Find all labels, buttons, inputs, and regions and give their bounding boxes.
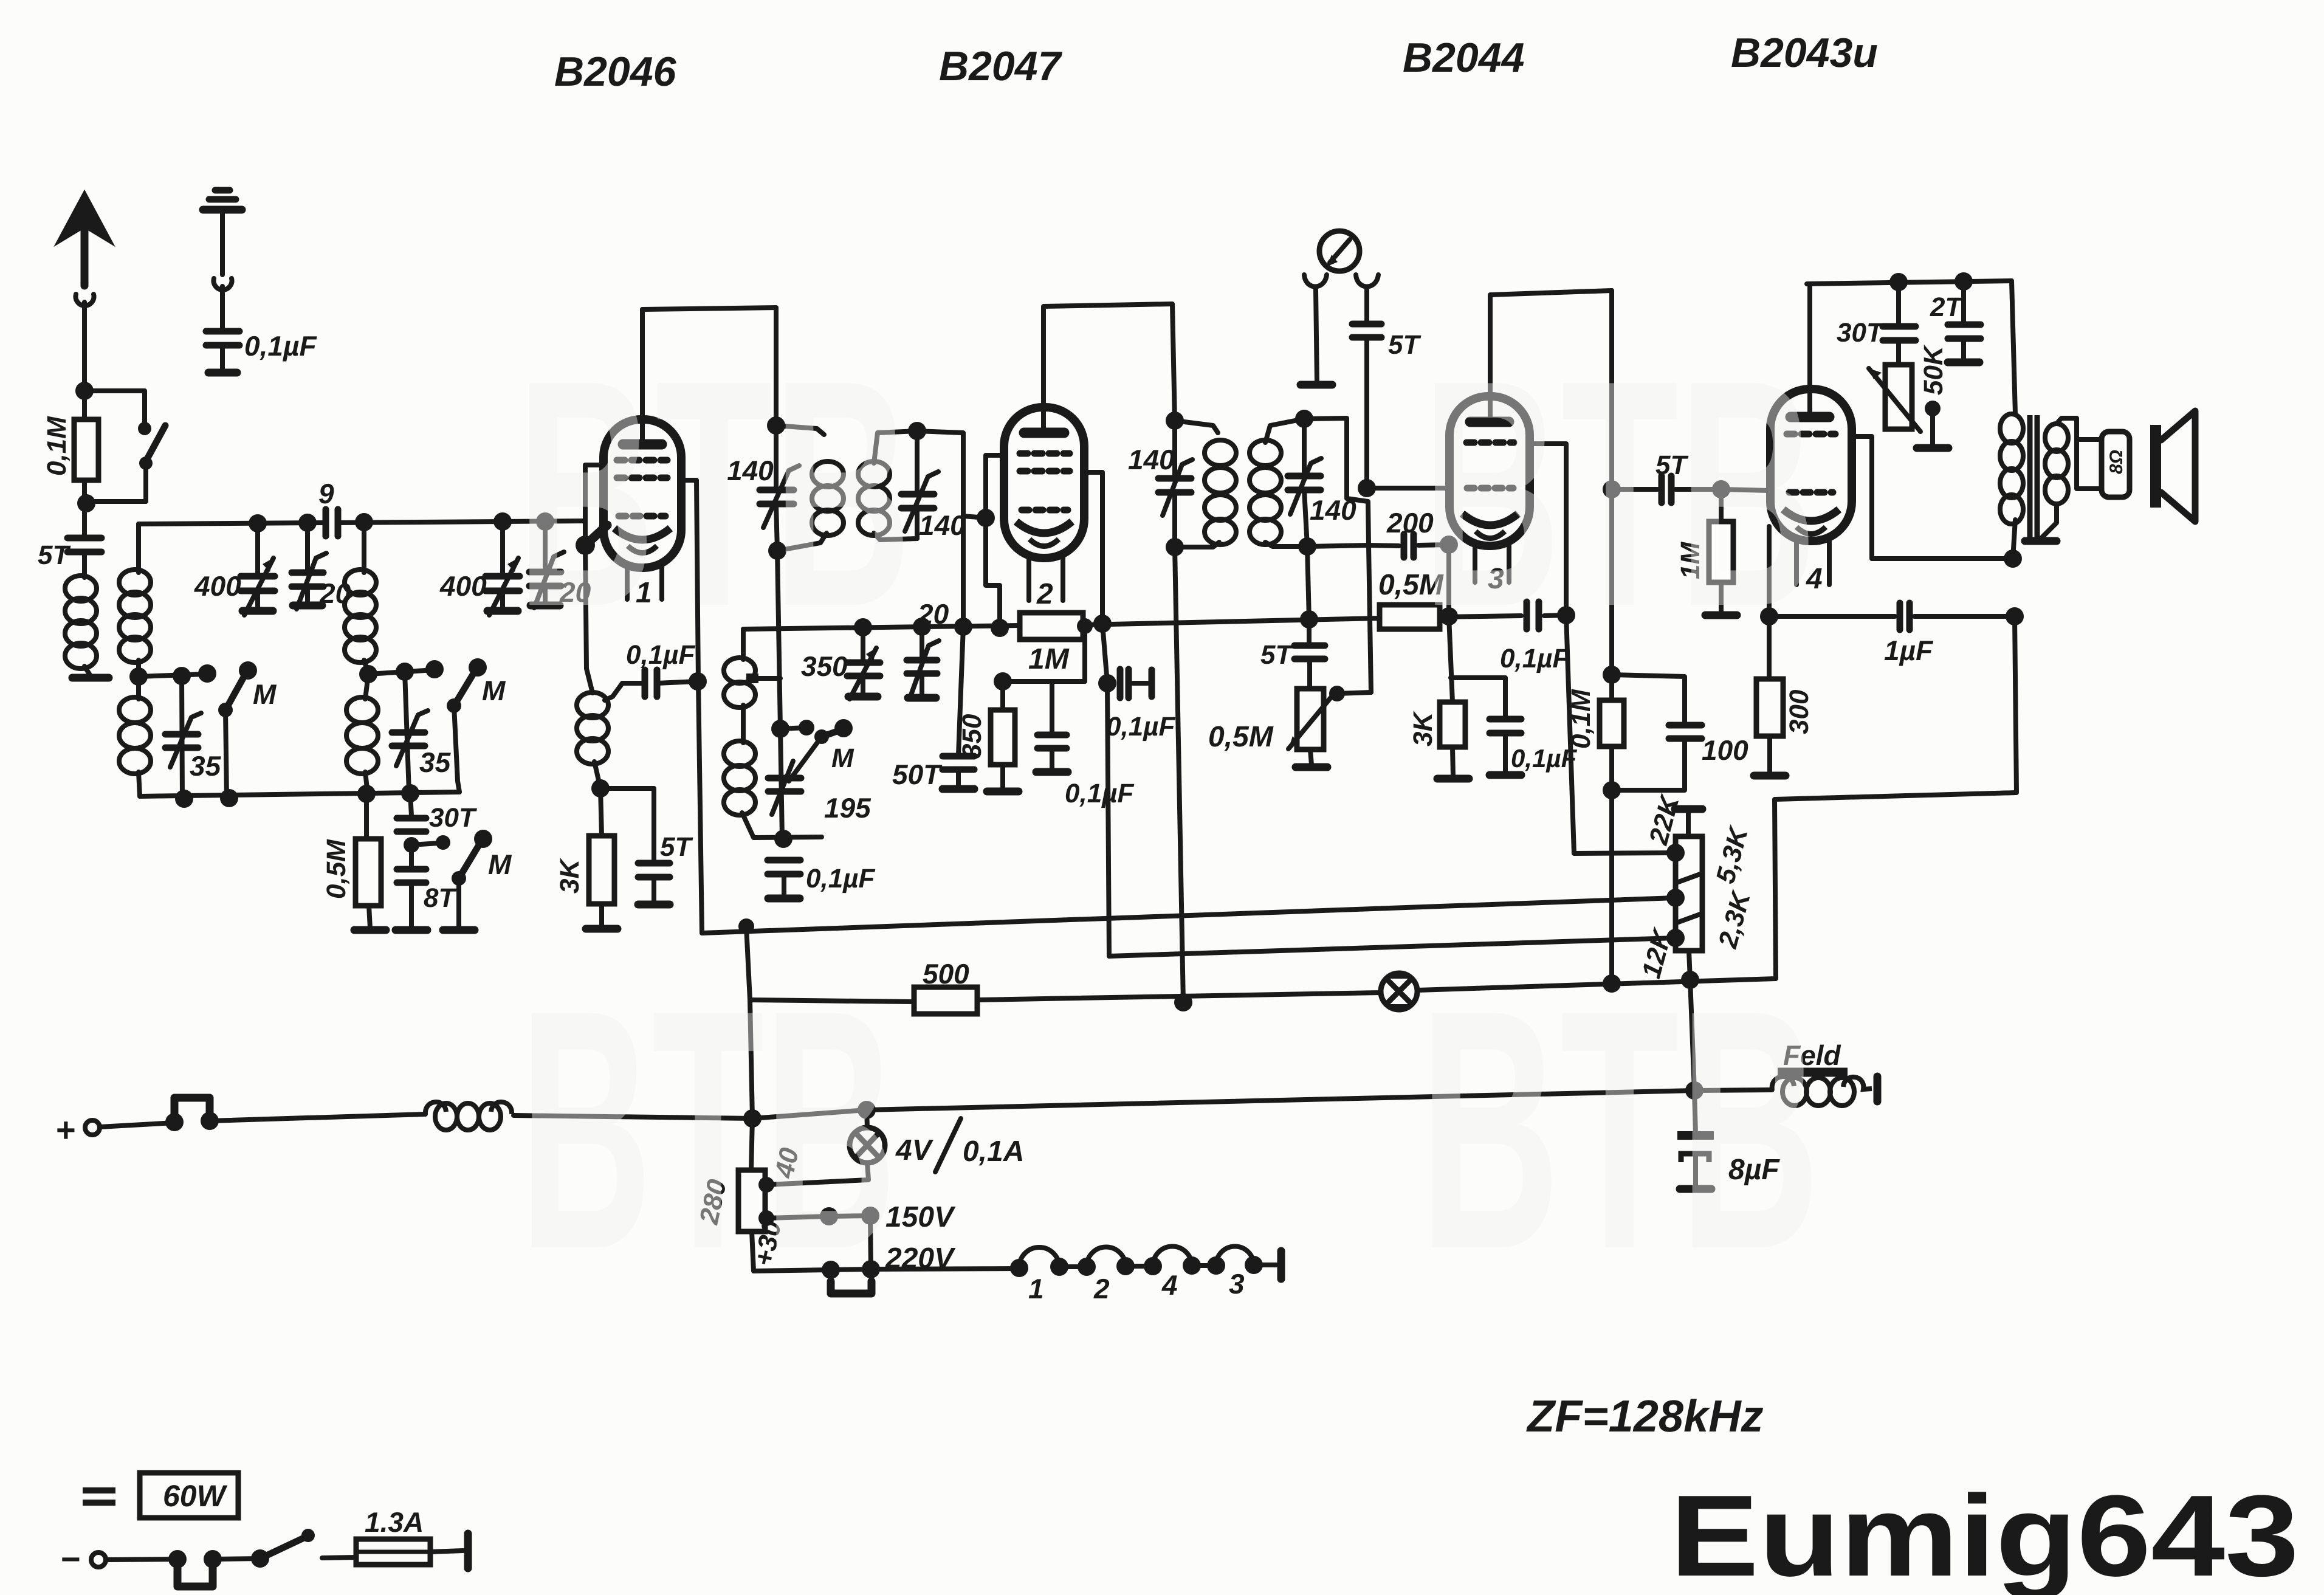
svg-text:140: 140 xyxy=(1128,444,1175,475)
svg-text:50K: 50K xyxy=(1919,344,1948,395)
svg-text:1: 1 xyxy=(1028,1273,1044,1304)
svg-text:M: M xyxy=(253,678,277,710)
svg-text:4: 4 xyxy=(1161,1269,1178,1301)
svg-text:140: 140 xyxy=(919,509,966,541)
svg-text:30T: 30T xyxy=(429,803,477,833)
svg-text:1M: 1M xyxy=(1028,643,1070,675)
svg-text:B2044: B2044 xyxy=(1403,35,1524,81)
svg-text:0,1µF: 0,1µF xyxy=(806,864,876,894)
svg-text:ZF=128kHz: ZF=128kHz xyxy=(1526,1391,1764,1441)
svg-text:BTB: BTB xyxy=(1422,314,1817,673)
svg-text:0,5M: 0,5M xyxy=(321,839,351,899)
svg-text:0,1M: 0,1M xyxy=(42,416,72,476)
svg-text:BTB: BTB xyxy=(520,939,896,1320)
svg-text:195: 195 xyxy=(824,792,871,824)
svg-text:35: 35 xyxy=(190,750,222,782)
svg-text:5T: 5T xyxy=(1388,330,1421,360)
svg-text:50T: 50T xyxy=(892,759,943,790)
svg-text:5T: 5T xyxy=(38,540,70,570)
svg-text:5T: 5T xyxy=(1260,640,1293,670)
svg-text:20: 20 xyxy=(917,598,949,630)
svg-text:2: 2 xyxy=(1036,578,1053,610)
svg-text:−: − xyxy=(61,1540,81,1578)
svg-text:60W: 60W xyxy=(163,1479,228,1513)
svg-text:35: 35 xyxy=(419,746,452,778)
svg-text:4V: 4V xyxy=(895,1134,934,1166)
svg-text:Eumig643: Eumig643 xyxy=(1670,1472,2299,1595)
svg-text:400: 400 xyxy=(194,570,241,602)
svg-text:8T: 8T xyxy=(424,883,456,913)
svg-text:8Ω: 8Ω xyxy=(2106,450,2126,474)
svg-text:1µF: 1µF xyxy=(1884,635,1934,666)
svg-text:B2046: B2046 xyxy=(554,49,677,95)
svg-text:2T: 2T xyxy=(1930,292,1963,322)
svg-text:9: 9 xyxy=(318,478,334,509)
svg-text:300: 300 xyxy=(1784,689,1814,734)
svg-text:+: + xyxy=(56,1111,76,1149)
svg-text:B2043u: B2043u xyxy=(1731,30,1878,76)
svg-text:M: M xyxy=(482,675,506,706)
svg-text:350: 350 xyxy=(957,714,987,759)
svg-text:1.3A: 1.3A xyxy=(365,1506,424,1538)
svg-text:3K: 3K xyxy=(1408,711,1438,746)
svg-text:5T: 5T xyxy=(660,832,693,862)
svg-text:0,5M: 0,5M xyxy=(1208,721,1274,753)
svg-text:0,1µF: 0,1µF xyxy=(1065,779,1135,808)
svg-text:0,1µF: 0,1µF xyxy=(244,330,317,362)
svg-text:2: 2 xyxy=(1093,1273,1110,1304)
svg-text:M: M xyxy=(488,849,512,880)
svg-text:3K: 3K xyxy=(555,858,585,894)
svg-text:0,1µF: 0,1µF xyxy=(1106,712,1176,742)
svg-text:B2047: B2047 xyxy=(939,43,1063,89)
svg-text:M: M xyxy=(831,743,854,773)
svg-text:100: 100 xyxy=(1702,734,1748,766)
svg-text:BTB: BTB xyxy=(517,314,912,673)
svg-text:500: 500 xyxy=(923,958,969,990)
svg-text:BTB: BTB xyxy=(1419,939,1820,1320)
svg-text:30T: 30T xyxy=(1837,318,1885,348)
svg-text:400: 400 xyxy=(439,570,487,602)
svg-text:3: 3 xyxy=(1229,1268,1245,1300)
svg-text:0,1A: 0,1A xyxy=(963,1135,1024,1168)
